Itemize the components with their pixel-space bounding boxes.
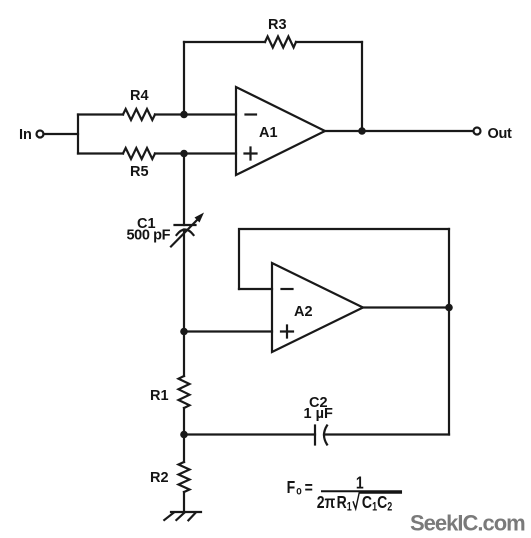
wire R2 to ground	[183, 492, 185, 512]
terminal Out	[474, 128, 481, 135]
capacitor C1 top plate	[175, 224, 196, 226]
wire right vertical from R3 to output node	[361, 42, 363, 131]
svg-text:SeekIC.com: SeekIC.com	[410, 511, 525, 536]
wire A2 output	[363, 306, 449, 308]
svg-text:R2: R2	[150, 470, 169, 486]
svg-text:A1: A1	[259, 125, 278, 141]
resistor R2	[179, 462, 190, 492]
wire node to C2	[184, 433, 315, 435]
svg-text:2: 2	[387, 501, 392, 513]
resistor R1	[179, 376, 190, 408]
wire A2 feedback loop	[239, 229, 449, 289]
wire from In terminal	[44, 133, 79, 135]
svg-text:1: 1	[356, 473, 364, 493]
wire right vertical to C2	[448, 229, 450, 435]
node R1 R2 C2 junction	[180, 431, 188, 439]
svg-text:R3: R3	[268, 17, 287, 33]
op-amp A2	[272, 263, 363, 352]
svg-text:R: R	[337, 492, 347, 512]
svg-text:o: o	[296, 486, 301, 498]
resistor R5	[123, 148, 155, 159]
svg-text:500 pF: 500 pF	[127, 228, 171, 244]
A1 plus sign	[245, 148, 257, 160]
terminal In	[37, 131, 44, 138]
svg-text:Out: Out	[488, 126, 513, 142]
node output junction	[358, 127, 366, 135]
node R5 junction	[180, 150, 188, 158]
capacitor C1 bottom curved plate	[177, 230, 194, 236]
capacitor C1 arrow shaft	[171, 219, 198, 247]
A2 minus sign	[282, 288, 293, 290]
wire vertical R5 node to C1	[183, 154, 185, 226]
resistor R3	[265, 37, 296, 48]
A1 minus sign	[246, 113, 257, 115]
wire vertical C1 to A2 plus node	[183, 230, 185, 332]
svg-text:In: In	[19, 127, 32, 143]
A2 plus sign	[281, 326, 293, 338]
svg-text:F: F	[287, 477, 296, 497]
svg-text:C: C	[362, 492, 372, 512]
svg-text:1: 1	[347, 501, 352, 513]
svg-text:2π: 2π	[317, 492, 336, 512]
wire input branch vertical	[77, 115, 79, 154]
wire node to R2	[183, 435, 185, 463]
wire R1 to node	[183, 408, 185, 435]
svg-text:R5: R5	[130, 164, 149, 180]
svg-text:R1: R1	[150, 388, 169, 404]
wire to R4	[78, 113, 123, 115]
capacitor C2 left plate	[314, 426, 316, 445]
op-amp A1	[236, 87, 325, 175]
formula Fo = 1 / (2 pi R1 sqrt(C1C2))	[287, 473, 402, 514]
wire R3 top right segment	[296, 41, 362, 43]
ground	[164, 512, 201, 520]
wire R4 to A1 inverting input	[155, 113, 236, 115]
wire R3 top left segment	[184, 41, 265, 43]
wire to R5	[78, 152, 123, 154]
wire A1 output	[325, 130, 474, 132]
svg-text:R4: R4	[130, 88, 149, 104]
wire A2 non-inverting input	[184, 330, 272, 332]
wire A2 feedback to inverting input	[239, 288, 272, 290]
wire left vertical from R3 to R4 node	[183, 42, 185, 115]
resistor R4	[123, 109, 155, 120]
node A2 non-inverting junction	[180, 328, 188, 336]
svg-text:1 µF: 1 µF	[304, 406, 333, 422]
wire vertical A2 plus node down to R1	[183, 332, 185, 377]
wire R5 to A1 non-inverting input	[155, 152, 236, 154]
capacitor C2 right curved plate	[324, 426, 327, 445]
svg-text:C: C	[377, 492, 387, 512]
wire C2 to right vertical	[324, 433, 449, 435]
capacitor C1 arrowhead	[195, 213, 205, 223]
svg-text:A2: A2	[294, 304, 313, 320]
svg-text:=: =	[305, 478, 313, 498]
node A2 output junction	[445, 304, 453, 312]
node R4 junction	[180, 111, 188, 119]
